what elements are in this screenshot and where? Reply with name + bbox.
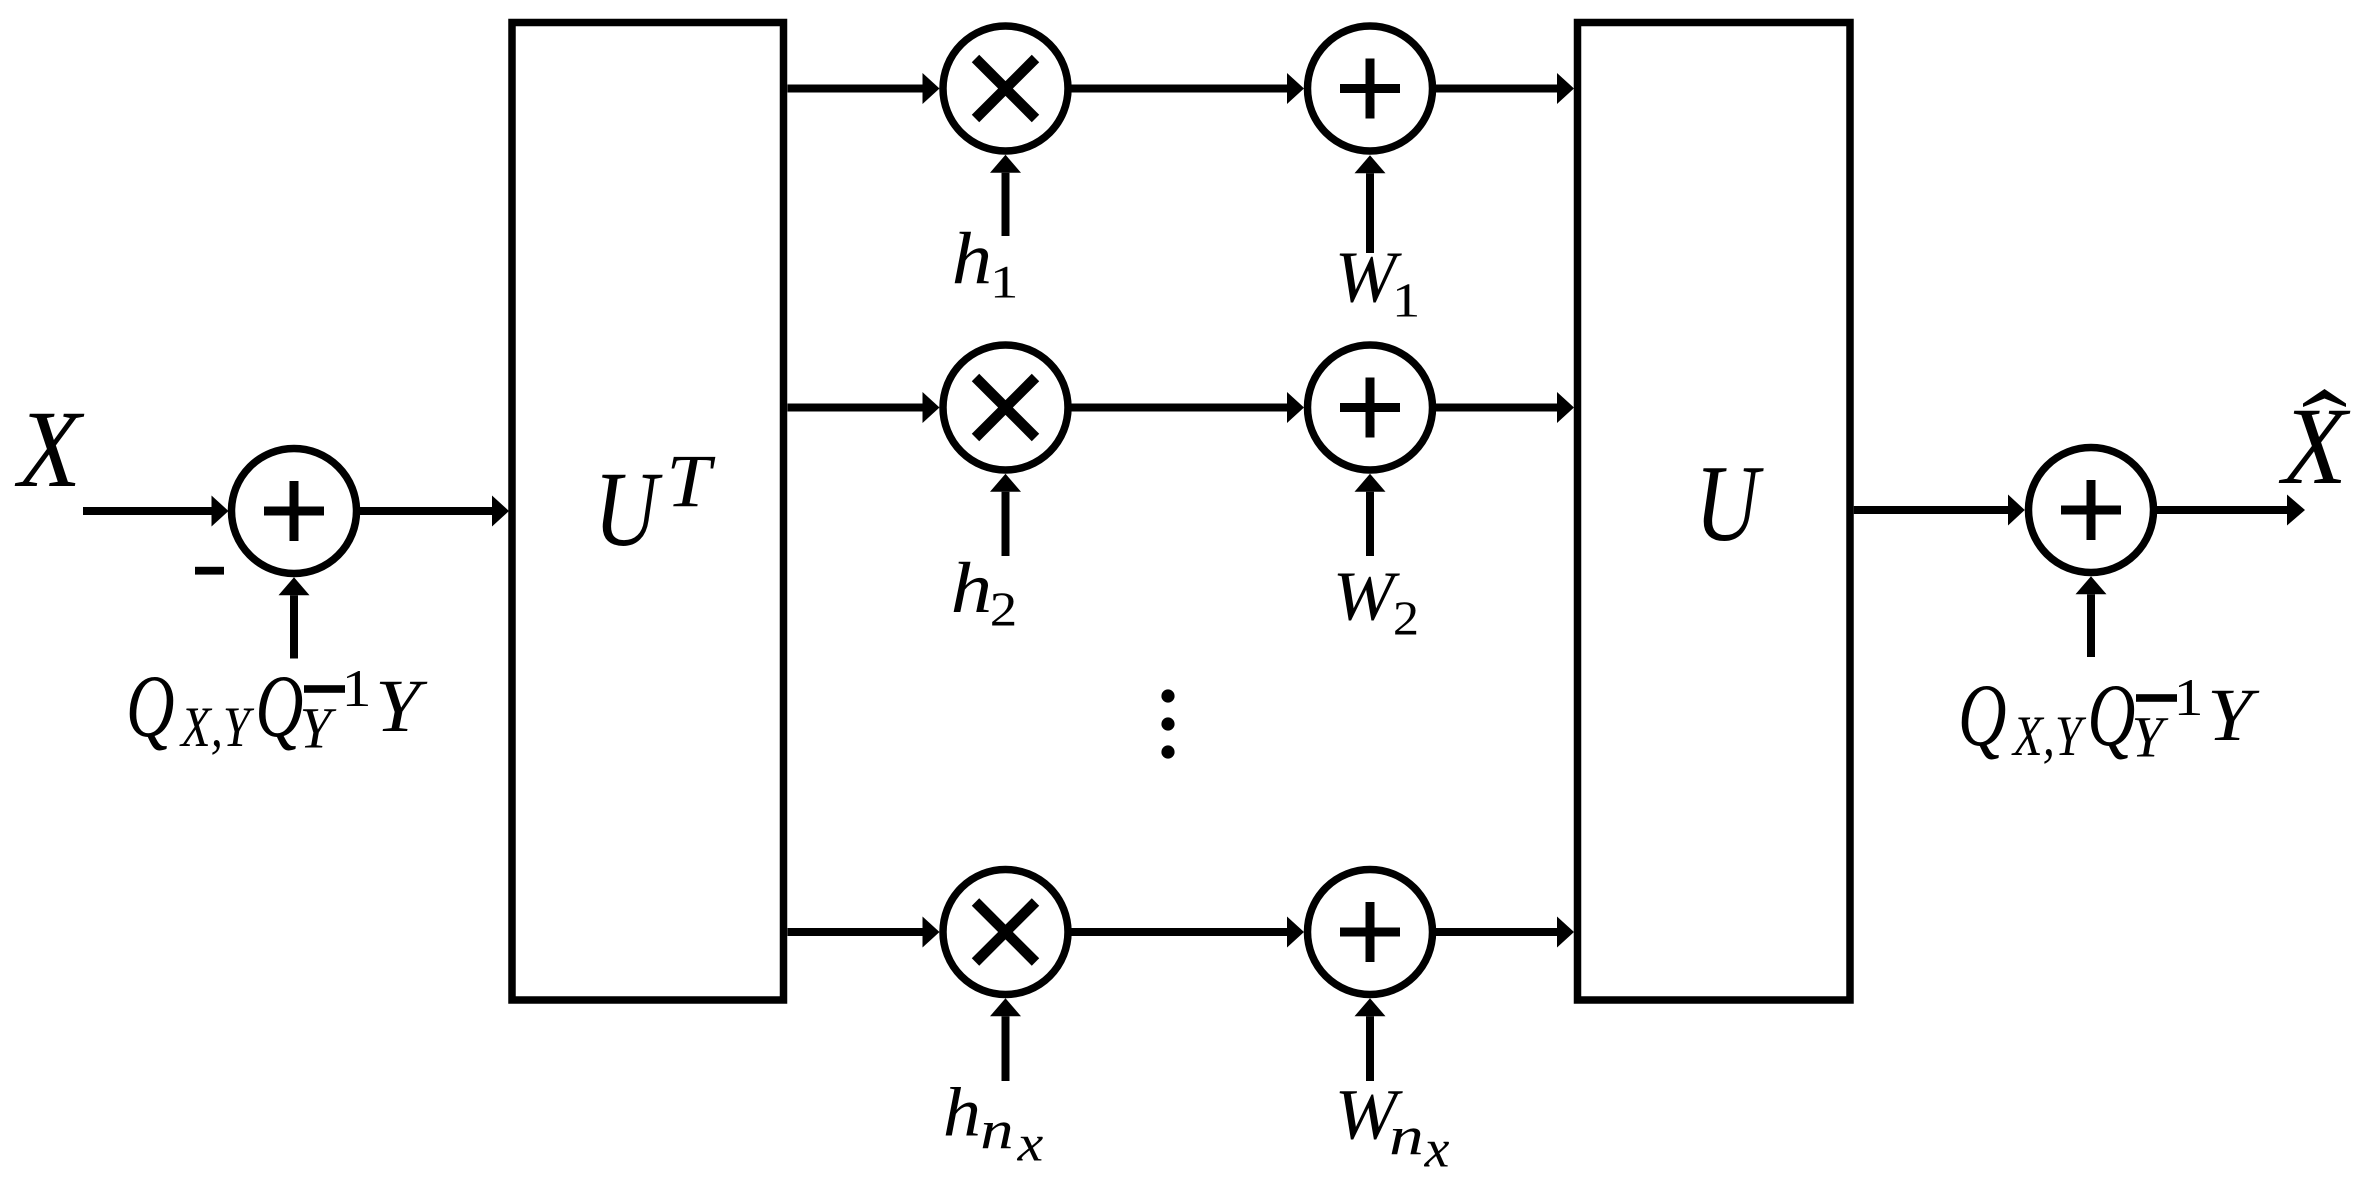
svg-text:X: X [14,388,84,510]
svg-text:X,Y: X,Y [2011,705,2086,768]
adder A1 [1308,26,1433,151]
wire QXY input up into S1 [290,595,298,658]
multiplier M3 [943,870,1068,995]
hat accent over Xhat [2303,389,2346,407]
wire S1 to block UT [357,507,493,515]
plus sign in S2 [2061,480,2121,540]
svg-text:h: h [952,219,992,301]
block U^T [512,23,784,1001]
summer S1 (left adder) [232,449,357,574]
wire A2 to block U [1433,404,1558,412]
wire hnx up into M3 [1002,1016,1010,1081]
wire M3 to adder A3 [1068,928,1287,936]
svg-text:h: h [951,547,993,628]
wire W2 up into A2 [1366,492,1374,556]
wire X to summer S1 [83,507,212,515]
minus sign label at S1 [195,567,224,575]
adder A3 [1308,870,1433,995]
svg-text:U: U [1695,443,1764,564]
wire A3 to block U [1433,928,1558,936]
wire UT to multiplier M3 [788,928,923,936]
svg-text:Y: Y [2207,674,2260,757]
wire Wnx up into A3 [1366,1016,1374,1081]
plus sign in A2 [1340,378,1400,438]
svg-text:n: n [980,1100,1013,1161]
svg-text:W: W [1333,558,1400,635]
wire UT to multiplier M1 [788,85,923,93]
wire QXY input up into S2 [2087,594,2095,657]
adder A2 [1308,345,1433,470]
svg-text:Q: Q [2087,667,2135,765]
svg-text:1: 1 [342,660,372,718]
svg-text:Y: Y [2132,705,2169,770]
svg-text:Y: Y [300,696,337,761]
svg-text:Q: Q [255,658,303,756]
node label QX,Y QY^-1 Y (right) [1958,667,2260,770]
svg-text:1: 1 [990,257,1019,309]
node label QX,Y QY^-1 Y (left) [126,658,428,761]
summer S2 (right adder) [2029,448,2154,573]
vertical ellipsis dots [1161,689,1174,702]
svg-text:n: n [1389,1106,1424,1167]
svg-text:U: U [594,451,663,569]
svg-text:2: 2 [990,582,1018,637]
svg-text:1: 1 [1392,275,1421,328]
svg-text:Q: Q [126,658,175,756]
svg-text:x: x [1424,1119,1450,1179]
wire h1 up into M1 [1002,173,1010,236]
plus sign in S1 [264,481,324,541]
svg-text:x: x [1016,1115,1043,1173]
svg-text:Y: Y [375,665,428,748]
svg-text:T: T [666,440,716,523]
wire W1 up into A1 [1366,173,1374,253]
multiplier M1 [943,26,1068,151]
block U [1578,23,1851,1001]
svg-text:Q: Q [1958,667,2007,765]
svg-text:1: 1 [2174,669,2204,727]
wire M1 to adder A1 [1068,85,1287,93]
plus sign in A1 [1340,59,1400,119]
wire S2 to output Xhat [2154,506,2288,514]
svg-text:X,Y: X,Y [179,696,254,759]
wire A1 to block U [1433,85,1558,93]
wire UT to multiplier M2 [788,404,923,412]
plus sign in A3 [1340,902,1400,962]
svg-text:2: 2 [1393,591,1419,646]
svg-text:h: h [943,1075,981,1152]
wire h2 up into M2 [1002,492,1010,556]
wire U to summer S2 [1854,506,2008,514]
multiplier M2 [943,345,1068,470]
wire M2 to adder A2 [1068,404,1287,412]
